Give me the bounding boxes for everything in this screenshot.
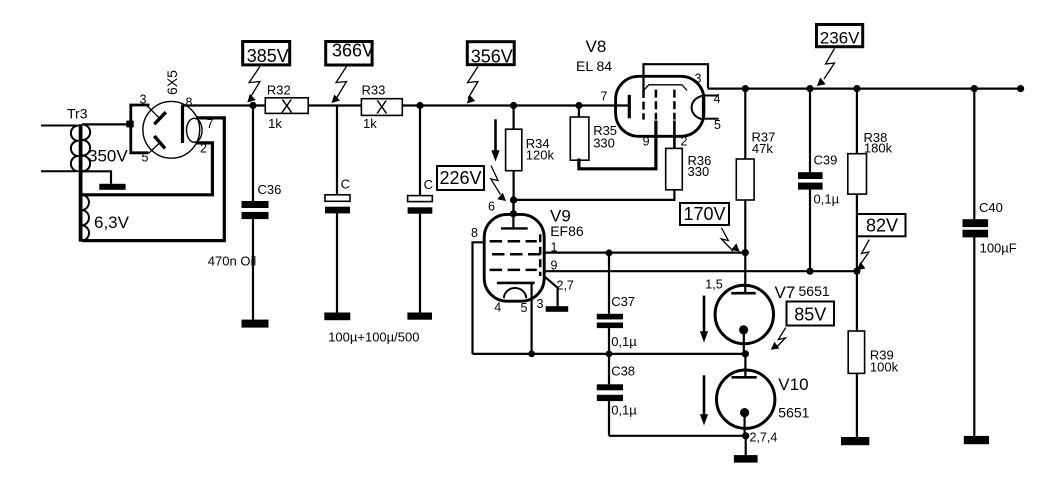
pin label 2: [200, 142, 207, 156]
node R38/R39 junction: [853, 268, 860, 275]
label 6X5 (rotated): [164, 70, 180, 95]
node V7 top: [742, 249, 749, 256]
svg-text:C39: C39: [814, 153, 838, 168]
label 5651 (V10): [778, 405, 809, 421]
label 6,3V: [94, 213, 130, 232]
current arrow at V7: [700, 296, 708, 343]
svg-text:8: 8: [186, 96, 193, 110]
svg-text:2,7: 2,7: [557, 278, 574, 292]
pin label 4 (V8): [714, 92, 721, 106]
svg-text:5651: 5651: [799, 283, 830, 299]
node C36/385V: [249, 102, 256, 109]
pin label 2,7,4: [750, 431, 778, 445]
wire V9 cathode pin 5 drop: [530, 283, 532, 354]
lightning arrow 82V: [857, 240, 869, 271]
svg-text:100k: 100k: [870, 360, 899, 375]
V8 pin 5 stub: [703, 118, 718, 120]
V9 heater arc: [504, 288, 526, 298]
node C37 bottom: [606, 351, 613, 358]
pin label 4 (V9): [494, 301, 501, 315]
current arrow at V10: [700, 375, 708, 425]
wire V7/V10 junction to V10 top: [744, 354, 746, 377]
svg-text:9: 9: [643, 135, 650, 149]
svg-text:V8: V8: [586, 37, 607, 56]
node C39 bottom: [806, 268, 813, 275]
wire 350V bottom lead to ground: [82, 171, 111, 184]
wire B+ bus left (385V rail): [182, 104, 629, 106]
wire V10 bottom to ground: [745, 436, 747, 455]
node R34 bottom: [510, 196, 517, 203]
svg-text:V7: V7: [775, 283, 796, 302]
pin label 7 (V8): [601, 89, 608, 103]
voltage box 85V: [787, 302, 835, 326]
label 1,5: [705, 278, 722, 292]
node pin5 on cathode bus: [528, 351, 535, 358]
wire R34 bottom to R36 bottom: [514, 190, 675, 200]
svg-text:1k: 1k: [363, 116, 377, 131]
transformer Tr3 6,3V winding: [82, 195, 89, 241]
reference tube V10 envelope: [717, 370, 775, 428]
svg-text:R33: R33: [362, 83, 386, 98]
svg-text:6: 6: [488, 199, 495, 213]
svg-text:C: C: [341, 177, 350, 192]
V8 inner screen top line: [644, 85, 688, 91]
node V10 bottom (2,7,4): [742, 432, 749, 439]
wire V7 cathode to junction: [743, 330, 745, 354]
svg-text:C: C: [424, 177, 433, 192]
pin label 3 (V8): [695, 71, 702, 85]
label 5651 (V7): [799, 283, 830, 299]
pin label 3 (V9): [537, 297, 544, 311]
wire V9 pin 9 to R38/R39 node: [544, 270, 857, 272]
svg-text:3: 3: [537, 297, 544, 311]
V9 grid row 2 (dashed): [492, 253, 540, 256]
svg-text:5651: 5651: [778, 405, 809, 421]
node C40 top: [971, 85, 978, 92]
V9 cathode bar: [497, 282, 535, 285]
lightning arrow 236V: [817, 49, 835, 87]
wire V9 pin 8 loop: [473, 242, 485, 354]
svg-text:6X5: 6X5: [164, 70, 180, 95]
ground (350V winding): [99, 184, 125, 190]
svg-text:1k: 1k: [268, 116, 282, 131]
wire heater pin 7 to 6,3V bottom: [82, 118, 224, 241]
svg-text:0,1µ: 0,1µ: [611, 334, 637, 349]
svg-text:85V: 85V: [794, 305, 826, 325]
svg-text:170V: 170V: [683, 204, 725, 224]
V9 screen column (dashed): [539, 234, 542, 276]
V8 anode plate (pin 7): [628, 95, 631, 119]
pin label 3: [140, 93, 147, 107]
pin label 5: [142, 151, 149, 165]
node C37 top: [606, 249, 613, 256]
ground (R39): [841, 437, 869, 445]
svg-text:330: 330: [688, 164, 710, 179]
label EL 84: [576, 58, 612, 74]
V8 grid 2 (dashed): [655, 90, 658, 120]
capacitor C (second electrolytic): [408, 106, 433, 313]
svg-text:EL 84: EL 84: [576, 58, 612, 74]
lightning arrow 356V: [467, 67, 478, 104]
svg-text:82V: 82V: [866, 216, 898, 236]
reference tube V7 envelope: [715, 285, 773, 343]
svg-text:180k: 180k: [864, 140, 893, 155]
resistor R39: [848, 271, 898, 437]
6X5 lower anode plate: [149, 136, 165, 153]
svg-text:EF86: EF86: [550, 223, 584, 239]
V8 pin 4 stub: [703, 95, 718, 97]
svg-text:100µ+100µ/500: 100µ+100µ/500: [328, 330, 419, 345]
ground (V9 pins 2,7): [546, 306, 569, 312]
ground (V10): [734, 455, 758, 463]
svg-text:5: 5: [521, 301, 528, 315]
svg-text:3: 3: [140, 93, 147, 107]
capacitor C36: [208, 106, 282, 320]
lightning arrow 385V: [247, 67, 260, 103]
resistor R34: [506, 106, 555, 214]
pin label 8: [186, 96, 193, 110]
node bus end: [1017, 85, 1024, 92]
node junction 350V to anode column: [126, 121, 133, 128]
svg-text:C38: C38: [611, 363, 635, 378]
svg-text:V10: V10: [778, 375, 808, 394]
V8 grid 3 (dashed): [673, 90, 676, 120]
V8 cathode/heater arc: [692, 95, 704, 119]
svg-text:350V: 350V: [88, 147, 128, 166]
wire V8 top cap to bus (pin 3): [644, 64, 709, 90]
capacitor C40: [963, 89, 1017, 436]
pentode V9 envelope: [484, 214, 544, 301]
lightning arrow 366V: [332, 67, 347, 104]
pin label 9 (V9): [551, 259, 558, 273]
svg-text:1,5: 1,5: [705, 278, 722, 292]
lightning arrow 85V: [771, 328, 786, 350]
svg-text:385V: 385V: [247, 46, 289, 66]
capacitor C38: [597, 354, 637, 436]
capacitor C (first electrolytic): [325, 106, 350, 313]
label V7: [775, 283, 796, 302]
lightning arrow 170V: [721, 228, 739, 252]
pentode V8 envelope: [616, 76, 704, 136]
svg-text:8: 8: [471, 226, 478, 240]
svg-text:3: 3: [695, 71, 702, 85]
pin label 9 (V8): [643, 135, 650, 149]
svg-text:47k: 47k: [752, 141, 773, 156]
V9 top cap wire and grid bar: [501, 200, 528, 228]
ground (C36): [242, 320, 269, 328]
pin label 5 (V9): [521, 301, 528, 315]
svg-text:2: 2: [681, 135, 688, 149]
voltage box 82V: [857, 214, 906, 236]
6X5 heater oval: [187, 118, 203, 142]
transformer Tr3 primary winding: [41, 126, 79, 172]
svg-text:356V: 356V: [471, 47, 513, 67]
V8 grid 1 (dashed): [642, 90, 645, 120]
capacitor C37: [597, 253, 637, 354]
label V9: [550, 207, 571, 226]
ground (C40): [964, 436, 989, 444]
label 100u+100u/500: [328, 330, 419, 345]
pin label 1 (V9): [551, 241, 558, 255]
svg-text:7: 7: [207, 117, 214, 131]
node V9 grid cap upper: [510, 196, 517, 203]
svg-text:Tr3: Tr3: [67, 106, 88, 122]
pin label 5 (V8): [714, 118, 721, 132]
resistor R33: [361, 83, 402, 132]
svg-text:0,1µ: 0,1µ: [814, 192, 840, 207]
svg-text:470n Oil: 470n Oil: [208, 254, 257, 269]
node V7/V10 junction: [742, 350, 749, 357]
svg-text:C36: C36: [258, 182, 282, 197]
transformer Tr3 label: [67, 106, 88, 122]
6X5 cathode bar (pin 8): [181, 105, 184, 143]
node R35 top: [575, 102, 582, 109]
wire C38 bottom to V10 bottom: [609, 435, 746, 437]
svg-text:226V: 226V: [439, 168, 481, 188]
node R34 top: [510, 102, 517, 109]
label V8: [586, 37, 607, 56]
svg-text:R32: R32: [267, 82, 291, 97]
voltage box 385V: [243, 42, 290, 67]
wire V10 cathode to bottom node: [743, 413, 745, 436]
svg-text:4: 4: [714, 92, 721, 106]
svg-text:2: 2: [200, 142, 207, 156]
rectifier tube 6X5 envelope: [143, 101, 200, 158]
pin label 2 (V8): [681, 135, 688, 149]
svg-text:366V: 366V: [332, 41, 374, 61]
lightning arrow 226V: [491, 166, 506, 202]
voltage box 170V: [680, 203, 729, 225]
current arrow at R34: [491, 119, 499, 161]
wire V9 pin 1 to V7 node: [544, 252, 745, 254]
wire B+ bus right (236V rail): [708, 87, 1022, 89]
V9 grid row 1 (dashed): [490, 240, 537, 243]
svg-text:100µF: 100µF: [980, 240, 1017, 255]
V9 grid row 3 (dashed): [490, 269, 537, 272]
label EF86: [550, 223, 584, 239]
6X5 upper anode plate: [147, 106, 166, 124]
svg-text:C37: C37: [611, 294, 635, 309]
resistor R37: [736, 89, 775, 293]
pin label 2,7 (V9): [557, 278, 574, 292]
label V10: [778, 375, 808, 394]
V10 cathode dot: [740, 408, 749, 417]
resistor R38: [848, 89, 893, 272]
voltage box 226V: [437, 166, 484, 190]
V10 anode bar: [732, 376, 757, 379]
svg-text:5: 5: [142, 151, 149, 165]
pin label 6: [488, 199, 495, 213]
label 350V: [88, 147, 128, 166]
svg-text:120k: 120k: [526, 147, 555, 162]
wire 350V top lead to rectifier anodes: [82, 123, 127, 125]
svg-text:C40: C40: [979, 200, 1003, 215]
voltage box 236V: [817, 25, 863, 48]
svg-text:236V: 236V: [820, 29, 860, 48]
node C39 top: [806, 85, 813, 92]
pin label 7: [207, 117, 214, 131]
pin label 8 (V9): [471, 226, 478, 240]
transformer Tr3 core: [79, 124, 83, 241]
node R37 top: [742, 85, 749, 92]
wire V9 pins 2,7 to ground: [544, 276, 558, 306]
svg-text:7: 7: [601, 89, 608, 103]
svg-text:X: X: [376, 98, 388, 118]
transformer Tr3 350V secondary winding: [82, 124, 90, 171]
svg-text:4: 4: [494, 301, 501, 315]
capacitor C39: [798, 89, 840, 272]
node R38 top: [853, 85, 860, 92]
ground (second C): [407, 313, 432, 320]
node V9 grid cap lower: [510, 210, 517, 217]
svg-text:X: X: [281, 96, 293, 116]
V7 cathode dot: [739, 325, 748, 334]
resistor R36: [666, 121, 712, 190]
svg-text:6,3V: 6,3V: [94, 213, 130, 232]
wire R35 bottom to V8 pin 9 (thick): [579, 121, 656, 169]
wire pin 3 / pin 5 anode column: [131, 105, 150, 153]
voltage box 356V: [467, 42, 514, 67]
resistor R32: [265, 82, 308, 131]
svg-text:330: 330: [593, 136, 615, 151]
svg-text:5: 5: [714, 118, 721, 132]
svg-text:0,1µ: 0,1µ: [611, 402, 637, 417]
ground (first C): [324, 313, 350, 321]
wire cathode bus: [473, 353, 746, 355]
V7 anode bar: [731, 292, 755, 295]
node R33 out: [416, 102, 423, 109]
resistor R35: [570, 106, 617, 161]
wire heater pin 2 to 6,3V top: [82, 143, 212, 195]
svg-text:2,7,4: 2,7,4: [750, 431, 778, 445]
voltage box 366V: [326, 41, 374, 66]
